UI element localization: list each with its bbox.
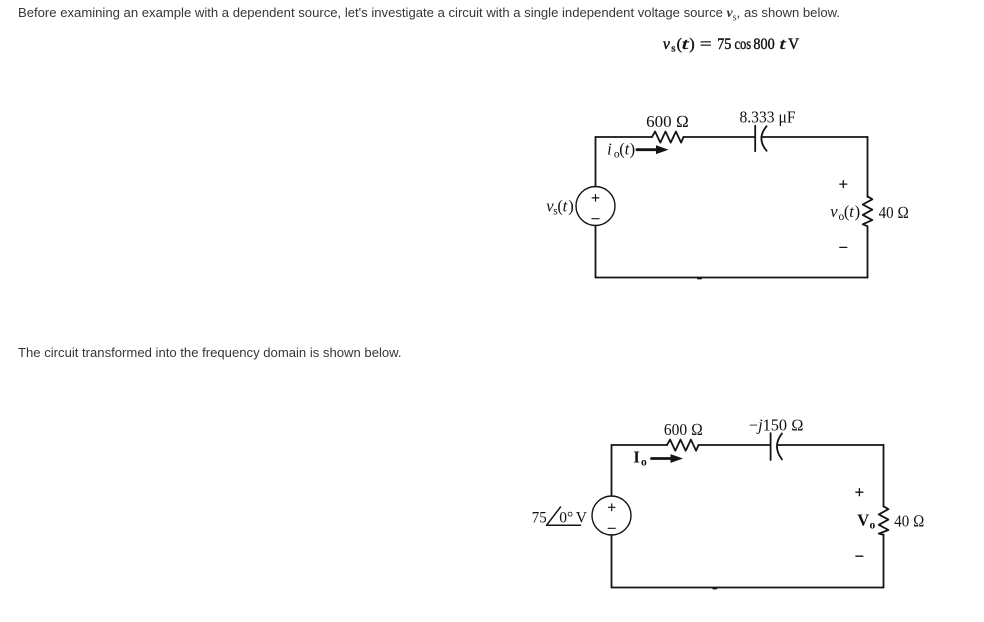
wire bottom xyxy=(612,587,884,589)
voltage source minus sign xyxy=(608,527,615,529)
capacitor C -j150 curved plate xyxy=(777,433,782,459)
wire resistor to capacitor xyxy=(699,444,771,446)
capacitor C -j150 left plate xyxy=(770,433,772,460)
svg-text:cos: cos xyxy=(735,36,752,53)
svg-text:vs(t): vs(t) xyxy=(546,197,574,218)
equation vs(t) = 75 cos 800 t V xyxy=(640,28,840,62)
circuit 1 (time domain) xyxy=(520,100,940,300)
capacitor C1 8.333uF left plate xyxy=(754,126,756,152)
svg-text:t: t xyxy=(779,36,786,53)
svg-text:Io: Io xyxy=(633,448,647,469)
svg-text:0°: 0° xyxy=(559,510,573,527)
svg-text:vs(t): vs(t) xyxy=(663,36,695,55)
wire left lower segment xyxy=(595,226,597,278)
svg-text:io(t): io(t) xyxy=(607,140,635,161)
svg-text:40 Ω: 40 Ω xyxy=(879,203,909,222)
voltage source VS circle xyxy=(576,187,615,226)
svg-text:V: V xyxy=(576,510,588,527)
voltage source minus sign xyxy=(592,218,599,220)
wire top-left segment xyxy=(612,444,668,446)
resistor R1 600ohm zigzag xyxy=(652,132,684,143)
wire capacitor to top-right corner xyxy=(763,136,868,138)
svg-text:75: 75 xyxy=(717,36,731,53)
svg-text:600 Ω: 600 Ω xyxy=(664,420,703,439)
paragraph 2 xyxy=(18,345,402,360)
circuit 2 (frequency domain) xyxy=(520,408,940,608)
wire right upper segment xyxy=(867,137,869,197)
wire left lower segment xyxy=(611,535,613,588)
voltage source VS circle xyxy=(592,496,631,535)
svg-text:75: 75 xyxy=(532,510,547,527)
paragraph 1 xyxy=(18,5,840,24)
svg-text:8.333 μF: 8.333 μF xyxy=(739,108,795,127)
label minus polarity R2 xyxy=(856,555,863,557)
node tick bottom xyxy=(713,587,716,589)
svg-text:800: 800 xyxy=(753,36,774,53)
svg-text:vo(t): vo(t) xyxy=(830,202,860,223)
wire right lower segment xyxy=(883,535,885,588)
svg-text:600 Ω: 600 Ω xyxy=(646,112,689,131)
voltage source plus sign xyxy=(592,195,599,202)
wire left upper segment xyxy=(611,445,613,496)
svg-text:Vo: Vo xyxy=(857,511,875,532)
wire top-left segment xyxy=(596,136,653,138)
label minus polarity R2 xyxy=(840,246,847,248)
wire bottom xyxy=(596,277,868,279)
svg-text:−j150 Ω: −j150 Ω xyxy=(749,416,804,435)
svg-text:=: = xyxy=(700,36,712,53)
node tick bottom xyxy=(698,277,701,279)
wire left upper segment xyxy=(595,137,597,187)
current arrow Io xyxy=(652,457,674,460)
label plus polarity R2 xyxy=(840,181,847,188)
angle symbol xyxy=(547,507,581,525)
capacitor C1 8.333uF curved plate xyxy=(761,126,766,151)
wire right lower segment xyxy=(867,227,869,278)
wire right upper segment xyxy=(883,445,885,506)
wire capacitor to top-right corner xyxy=(778,444,884,446)
label plus polarity R2 xyxy=(856,489,863,496)
resistor R2 40ohm zigzag xyxy=(879,506,889,535)
svg-text:40 Ω: 40 Ω xyxy=(894,512,924,531)
svg-text:V: V xyxy=(788,36,800,53)
resistor R2 40ohm zigzag xyxy=(863,196,873,226)
wire resistor to capacitor xyxy=(684,136,755,138)
voltage source plus sign xyxy=(608,504,615,511)
current arrow io xyxy=(637,148,659,151)
resistor R1 600ohm zigzag xyxy=(667,440,699,451)
